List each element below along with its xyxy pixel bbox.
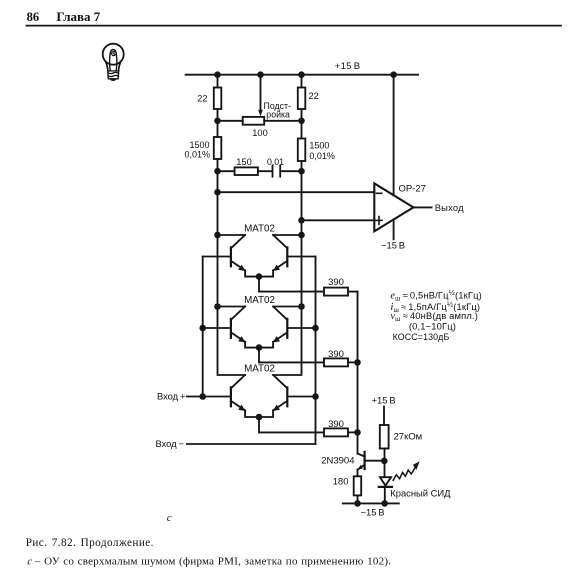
svg-text:150: 150 (236, 157, 252, 167)
resistor 390 #1 (324, 288, 348, 296)
wire +15V to 27k (383, 407, 385, 426)
op-amp OP-27 (374, 183, 413, 231)
svg-text:0,01%: 0,01% (184, 150, 210, 160)
resistor 150 (235, 167, 258, 175)
capacitor 0,01 (272, 166, 274, 177)
junction pot-right (298, 118, 305, 125)
junction on rail (wiper) (257, 71, 264, 78)
resistor 180 (354, 476, 362, 495)
LED light arrow (393, 467, 415, 480)
transistor Q1a (231, 235, 245, 248)
svg-text:0,01%: 0,01% (309, 151, 335, 161)
svg-text:(0,1−10Гц): (0,1−10Гц) (409, 320, 456, 331)
svg-text:22: 22 (197, 94, 207, 104)
svg-text:Красный СИД: Красный СИД (390, 487, 451, 498)
header rule (27, 25, 562, 27)
transistor Q3b (273, 375, 287, 388)
resistor 390 #2 (324, 358, 348, 366)
wire: 390 common bus (357, 292, 359, 454)
transistor Q3a (231, 375, 245, 388)
trimpot 100 wiper wire with arrow (260, 75, 262, 111)
wire: outer left bus (bases +) (202, 257, 204, 397)
junction on rail (right bus) (298, 71, 305, 78)
resistor 22 (right) (298, 88, 306, 110)
wire: Вход - (187, 443, 316, 445)
svg-text:390: 390 (328, 349, 344, 360)
svg-text:OP-27: OP-27 (399, 183, 426, 194)
svg-text:86: 86 (27, 10, 39, 24)
resistor 1500 0,01% (left) (214, 137, 222, 159)
svg-text:Вход −: Вход − (155, 438, 184, 449)
svg-text:ройка: ройка (266, 110, 290, 120)
svg-text:КОСС=130дБ: КОСС=130дБ (393, 332, 450, 342)
resistor 22 (left) (214, 88, 222, 110)
transistor pair MAT02 #2 (203, 295, 358, 366)
transistor Q2a (231, 307, 245, 320)
transistor Q2b (273, 307, 287, 320)
wire: left inner bus (217, 75, 219, 374)
svg-text:2N3904: 2N3904 (321, 456, 354, 467)
svg-text:Глава 7: Глава 7 (56, 9, 100, 24)
svg-text:+15 В: +15 В (372, 394, 396, 405)
wire emitters to 390 (259, 348, 324, 363)
wire: pot row (218, 120, 243, 122)
wire: output (413, 206, 431, 208)
svg-text:с: с (167, 512, 172, 524)
svg-text:с – ОУ со сверхмалым шумом (фи: с – ОУ со сверхмалым шумом (фирма PMI, з… (27, 556, 391, 568)
junction on rail (left bus) (214, 71, 221, 78)
resistor 390 #3 (324, 428, 348, 436)
svg-text:100: 100 (252, 128, 268, 138)
resistor 1500 0,01% (right) (298, 139, 306, 162)
light bulb icon (103, 44, 124, 81)
svg-text:MAT02: MAT02 (244, 295, 275, 306)
svg-text:1500: 1500 (309, 141, 329, 151)
svg-text:22: 22 (309, 91, 319, 101)
wire: outer right bus (bases -) (315, 257, 317, 445)
wire emitters to 390 (259, 277, 324, 292)
svg-text:1500: 1500 (189, 140, 209, 150)
LED red (380, 477, 391, 485)
junction 150-left (214, 168, 221, 175)
junction cap-right (298, 168, 305, 175)
-15V bottom rail (343, 502, 399, 504)
resistor 27kOm (380, 425, 389, 449)
wire: op-amp +V (393, 75, 395, 196)
svg-text:0,01: 0,01 (267, 157, 284, 167)
svg-text:27кОм: 27кОм (394, 432, 423, 443)
wire: 150 + 0,01 row (218, 170, 235, 172)
+15V top rail (186, 74, 418, 76)
svg-text:Выход: Выход (435, 202, 464, 213)
wire (258, 170, 272, 172)
svg-text:MAT02: MAT02 (244, 364, 275, 375)
svg-text:+15 В: +15 В (335, 61, 361, 72)
svg-text:MAT02: MAT02 (244, 224, 275, 235)
junction on rail (op-amp +V) (390, 71, 397, 78)
wire (281, 170, 302, 172)
wire emitters to 390 (259, 417, 324, 432)
svg-text:Вход +: Вход + (157, 391, 186, 402)
spec text block (391, 288, 482, 342)
svg-text:390: 390 (328, 419, 344, 430)
wire: op-amp minus input (218, 191, 375, 193)
wire: op-amp -V (393, 220, 395, 240)
transistor pair MAT02 #1 (203, 224, 358, 296)
svg-text:180: 180 (333, 476, 349, 487)
svg-text:Рис. 7.82. Продолжение.: Рис. 7.82. Продолжение. (26, 537, 154, 549)
svg-text:−15 В: −15 В (361, 507, 385, 518)
minus sign (377, 192, 382, 194)
plus sign (376, 219, 382, 221)
junction pot-left (214, 118, 221, 125)
trimpot 100 body (243, 117, 265, 125)
collector wires (218, 234, 246, 236)
transistor pair MAT02 #3 (187, 364, 358, 437)
svg-text:390: 390 (328, 277, 344, 288)
transistor Q1b (273, 235, 287, 248)
wire 27k to LED (384, 449, 386, 478)
wire: op-amp plus input (302, 219, 375, 221)
svg-text:−15 В: −15 В (381, 240, 405, 251)
wire: right inner bus (301, 75, 303, 374)
